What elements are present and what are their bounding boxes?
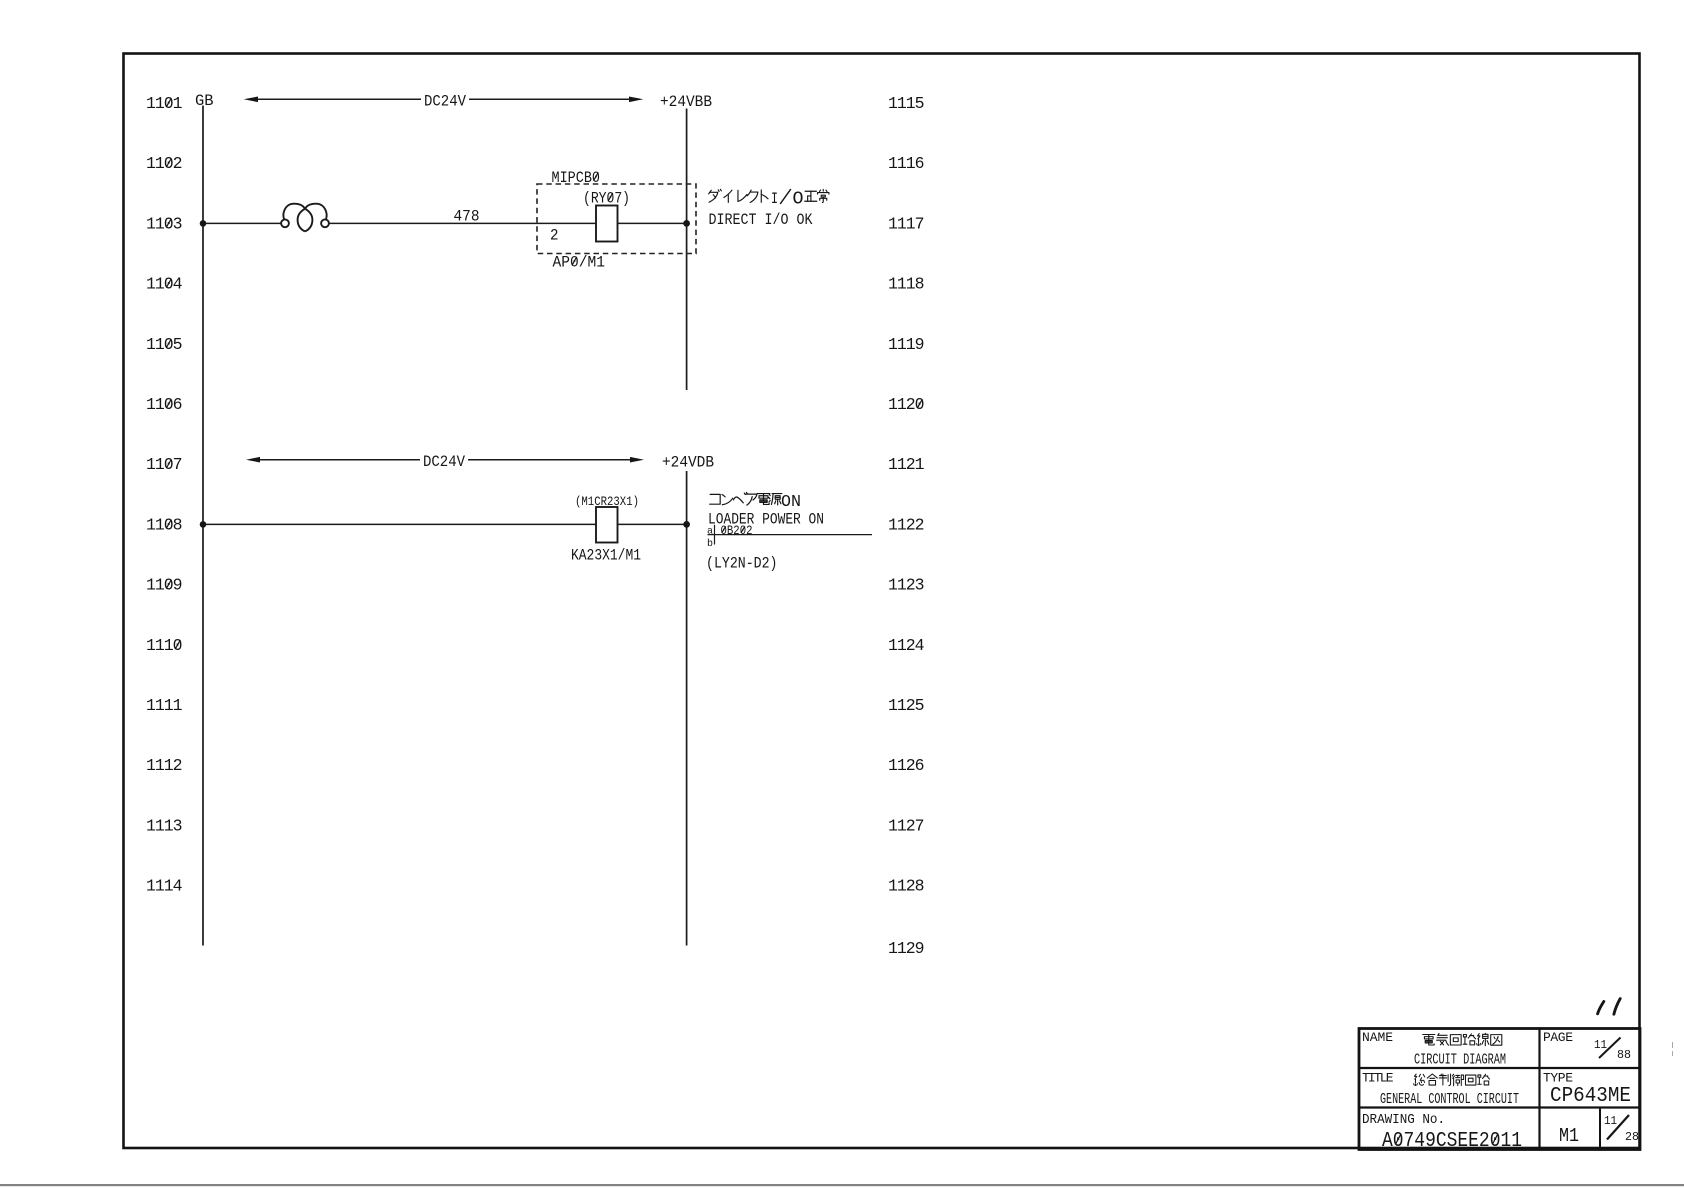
svg-text:1119: 1119 [888,335,925,354]
svg-text:1129: 1129 [888,939,925,958]
wire rung 1103 middle segment, label 478 [329,208,596,226]
wire rung 1108 left segment [203,523,596,525]
relay coil KA23X1 (M1CR23X1) [571,494,641,565]
svg-text:+24VDB: +24VDB [662,454,714,472]
net GB : left bus rail [195,92,214,946]
svg-text:1112: 1112 [146,756,183,775]
slashed-zero ticks (plotter font style) [166,98,1498,1144]
svg-text:1113: 1113 [146,816,183,835]
svg-text:1116: 1116 [888,154,925,173]
svg-text:1101: 1101 [146,94,183,113]
svg-text:1124: 1124 [888,636,925,655]
svg-text:TITLE: TITLE [1362,1071,1394,1086]
svg-text:O: O [793,189,804,209]
svg-text:1107: 1107 [146,455,183,474]
svg-text:GENERAL CONTROL CIRCUIT: GENERAL CONTROL CIRCUIT [1380,1092,1519,1108]
label katakana: conveyor power ON [710,492,782,505]
wire rung 1103 left segment [203,222,281,224]
svg-text:CIRCUIT DIAGRAM: CIRCUIT DIAGRAM [1414,1053,1506,1069]
svg-text:NAME: NAME [1362,1030,1393,1045]
coil / surge-suppressor symbol row 1103 [281,204,329,232]
title block table [1359,1029,1640,1150]
wire rung 1108 right segment [618,523,687,525]
svg-text:ON: ON [781,493,801,512]
svg-text:DC24V: DC24V [424,93,466,111]
svg-text:1117: 1117 [888,214,925,233]
svg-text:MIPCB0: MIPCB0 [552,169,601,187]
kanji title: GENERAL CONTROL CIRCUIT [1414,1074,1490,1086]
svg-text:1104: 1104 [146,275,183,294]
svg-text:M1: M1 [1559,1125,1579,1147]
sheet fraction 11/28 [1604,1114,1639,1144]
rung number column left [146,94,183,896]
wire rung 1103 right segment [618,222,687,224]
svg-text:GB: GB [195,92,214,110]
svg-text:1118: 1118 [888,275,925,294]
kanji title: CIRCUIT DIAGRAM (electric circuit wiring diagram) [1423,1033,1502,1045]
DC24V span arrow (row 1107) [246,453,644,471]
svg-text:88: 88 [1617,1048,1631,1062]
svg-text:11: 11 [1604,1114,1617,1128]
svg-text:I: I [771,190,778,208]
svg-text:A0749CSEE2011: A0749CSEE2011 [1382,1130,1522,1153]
relay coil RY07 [583,190,630,242]
svg-text:1126: 1126 [888,756,925,775]
svg-text:(LY2N-D2): (LY2N-D2) [706,555,778,573]
net +24VDB : right bus rail (lower) [662,454,714,946]
svg-text:2: 2 [550,227,559,245]
node junction on GB rail row 1103 [200,220,207,227]
module MIPCB0 / AP0/M1 dashed enclosure [537,169,696,272]
node junction on +24VBB rail row 1103 [683,220,690,227]
svg-text:+24VBB: +24VBB [660,93,712,111]
svg-text:1123: 1123 [888,576,925,595]
svg-text:1105: 1105 [146,335,183,354]
svg-text:11: 11 [1594,1038,1607,1052]
svg-text:DIRECT I/O OK: DIRECT I/O OK [709,211,813,229]
svg-text:1114: 1114 [146,877,183,896]
svg-text:KA23X1/M1: KA23X1/M1 [571,547,641,565]
net +24VBB : right bus rail (upper) [660,93,712,390]
node junction on +24VDB rail row 1108 [683,521,690,528]
DC24V span arrow (row 1101) [244,93,644,111]
page fraction 11/88 [1594,1038,1631,1063]
svg-text:1106: 1106 [146,395,183,414]
svg-text:1108: 1108 [146,515,183,534]
svg-text:PAGE: PAGE [1543,1030,1573,1045]
svg-text:a: a [707,526,713,538]
svg-text:28: 28 [1625,1130,1639,1144]
svg-text:1121: 1121 [888,455,925,474]
label katakana: direct I/O normal [709,189,829,203]
svg-text:1115: 1115 [888,94,925,113]
svg-text:1103: 1103 [146,214,183,233]
svg-text:DC24V: DC24V [423,453,465,471]
svg-text:AP0/M1: AP0/M1 [553,254,606,272]
cross reference line 0B202 with a/b terminals [707,524,872,550]
rung number column right [888,94,925,958]
svg-text:b: b [707,538,713,550]
node junction on GB rail row 1108 [200,521,207,528]
handwritten page mark 11 [1598,999,1621,1015]
svg-text:CP643ME: CP643ME [1550,1085,1631,1108]
svg-text:478: 478 [454,208,480,226]
svg-text:DRAWING No.: DRAWING No. [1362,1112,1445,1128]
svg-text:1127: 1127 [888,816,925,835]
svg-text:1122: 1122 [888,515,925,534]
svg-text:1125: 1125 [888,696,925,715]
svg-text:1111: 1111 [146,696,183,715]
svg-text:1109: 1109 [146,576,183,595]
svg-text:1128: 1128 [888,877,925,896]
svg-text:1102: 1102 [146,154,183,173]
svg-text:TYPE: TYPE [1543,1071,1573,1086]
